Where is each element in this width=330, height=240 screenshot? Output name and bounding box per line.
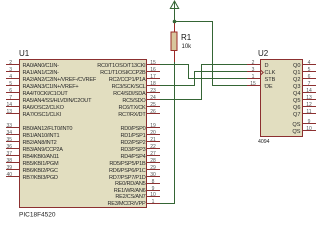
svg-text:RB4/KBI0/AN11: RB4/KBI0/AN11 [23, 154, 60, 160]
U1 pin 5 stub (left, RA3) [6, 81, 78, 90]
U1 pin 34 stub (left, RB1) [6, 130, 59, 139]
svg-text:37: 37 [6, 151, 12, 157]
svg-text:15: 15 [150, 60, 156, 66]
U1 pin 20 stub (right) [120, 130, 160, 139]
svg-text:RB2/AN8/INT2: RB2/AN8/INT2 [23, 140, 57, 146]
U1 pin 14 stub (left, RA6) [6, 102, 65, 111]
svg-text:33: 33 [6, 123, 12, 129]
U1 pin 21 stub (right) [120, 137, 160, 146]
svg-text:19: 19 [150, 123, 156, 129]
svg-text:RB3/AN9/CCP2A: RB3/AN9/CCP2A [23, 147, 64, 153]
svg-text:Q2: Q2 [293, 77, 300, 83]
svg-text:RB0/AN12/FLT0/INT0: RB0/AN12/FLT0/INT0 [23, 126, 73, 132]
svg-text:Q5: Q5 [293, 98, 300, 104]
svg-text:38: 38 [6, 158, 12, 164]
U1 pin 19 stub (right) [120, 123, 160, 132]
svg-text:RA1/AN1/C2IN-: RA1/AN1/C2IN- [23, 70, 60, 76]
svg-text:10: 10 [150, 192, 156, 198]
svg-text:2: 2 [252, 60, 255, 66]
svg-text:RC6/TX/CK: RC6/TX/CK [119, 105, 146, 111]
U2 pin 15 stub (left) [247, 81, 273, 90]
svg-text:14: 14 [306, 88, 312, 94]
svg-text:21: 21 [150, 137, 156, 143]
svg-text:RA7/OSC1/CLKI: RA7/OSC1/CLKI [23, 112, 62, 118]
svg-text:13: 13 [306, 95, 312, 101]
svg-text:RC0/T1OSO/T13CKI: RC0/T1OSO/T13CKI [97, 63, 146, 69]
wire R1 bottom to U1 RE3/MCLR pin 1 [160, 62, 175, 204]
svg-text:RA4/T0CKI/C1OUT: RA4/T0CKI/C1OUT [23, 91, 69, 97]
svg-text:26: 26 [150, 109, 156, 115]
U1 pin 39 stub (left, RB6) [6, 165, 58, 174]
U1 pin 26 stub (right) [118, 109, 160, 118]
svg-text:35: 35 [6, 137, 12, 143]
wire U1 RC5/SDO pin 24 to U2 D pin 2 [160, 65, 247, 100]
svg-text:OE: OE [265, 84, 273, 90]
U2 CLK clock chevron [261, 70, 264, 75]
svg-text:RD4/PSP4: RD4/PSP4 [120, 154, 145, 160]
svg-text:4: 4 [9, 74, 12, 80]
svg-text:PIC18F4520: PIC18F4520 [19, 212, 56, 219]
U1 pin 8 stub (right) [115, 179, 160, 187]
U1 pin 24 stub (right) [122, 95, 160, 104]
svg-text:5: 5 [9, 81, 12, 87]
shift register U2 body [261, 60, 303, 137]
svg-text:CLK: CLK [265, 70, 276, 76]
svg-text:RC2/CCP1/P1A: RC2/CCP1/P1A [109, 77, 146, 83]
svg-text:10k: 10k [182, 44, 193, 50]
svg-text:5: 5 [308, 67, 311, 73]
U2 pin 12 stub (right) [293, 102, 316, 111]
svg-text:Q1: Q1 [293, 70, 300, 76]
svg-text:RE2/CS/AN7: RE2/CS/AN7 [115, 194, 145, 200]
svg-text:11: 11 [306, 109, 311, 115]
svg-text:STB: STB [265, 77, 276, 83]
U1 pin 10 stub (right) [115, 192, 160, 200]
U1 pin 15 stub (right) [97, 60, 160, 69]
svg-text:16: 16 [150, 67, 156, 73]
U1 pin 17 stub (right) [109, 74, 160, 83]
U1 pin 25 stub (right) [119, 102, 160, 111]
svg-text:30: 30 [150, 172, 156, 178]
U1 pin 37 stub (left, RB4) [6, 151, 59, 160]
svg-text:34: 34 [6, 130, 12, 136]
svg-text:Q3: Q3 [293, 84, 300, 90]
svg-text:10: 10 [306, 126, 312, 132]
svg-text:25: 25 [150, 102, 156, 108]
U1 pin 38 stub (left, RB5) [6, 158, 59, 167]
U1 pin 6 stub (left, RA4) [6, 88, 68, 97]
U1 pin 29 stub (right) [109, 165, 160, 174]
svg-text:7: 7 [308, 81, 311, 87]
wire U1 RC3/SCK pin 18 to U2 CLK pin 3 [160, 72, 247, 86]
U1 pin 30 stub (right) [109, 172, 160, 181]
U2 pin 2 stub (left) [247, 60, 269, 69]
U1 pin 1 stub (right) [107, 199, 160, 207]
U1 pin 18 stub (right) [112, 81, 160, 90]
U1 pin 9 stub (right) [114, 186, 160, 194]
svg-text:6: 6 [308, 74, 311, 80]
svg-text:18: 18 [150, 81, 156, 87]
svg-text:U2: U2 [258, 49, 269, 58]
svg-text:Q0: Q0 [293, 63, 300, 69]
U2 pin 9 stub (right) [292, 119, 316, 128]
U2 pin 3 stub (left) [247, 67, 276, 76]
U2 pin 7 stub (right) [293, 81, 316, 90]
svg-text:RA2/AN2/C2IN+/VREF-/CVREF: RA2/AN2/C2IN+/VREF-/CVREF [23, 77, 97, 83]
svg-text:39: 39 [6, 165, 12, 171]
U2 pin 6 stub (right) [293, 74, 316, 83]
svg-text:RD5/PSP5/P1B: RD5/PSP5/P1B [109, 161, 146, 167]
svg-text:RC4/SDI/SDA: RC4/SDI/SDA [113, 91, 146, 97]
svg-text:RB6/KBI2/PGC: RB6/KBI2/PGC [23, 168, 58, 174]
svg-text:RD3/PSP3: RD3/PSP3 [120, 147, 145, 153]
U2 pin 10 stub (right) [292, 126, 316, 135]
svg-text:15: 15 [250, 81, 256, 87]
U1 pin 40 stub (left, RB7) [6, 172, 58, 181]
wire VCC junction to U2 OE pin 15 [175, 22, 248, 86]
svg-text:RD1/PSP1: RD1/PSP1 [120, 133, 145, 139]
U1 pin 23 stub (right) [113, 88, 160, 97]
U1 pin 2 stub (left, RA0) [6, 60, 59, 69]
svg-text:40: 40 [6, 172, 12, 178]
U1 pin 33 stub (left, RB0) [6, 123, 72, 132]
svg-text:RB5/KBI1/PGM: RB5/KBI1/PGM [23, 161, 59, 167]
wire U1 RC0 pin 15 to U2 STB pin 1 [160, 65, 247, 79]
svg-text:RB1/AN10/INT1: RB1/AN10/INT1 [23, 133, 60, 139]
svg-text:22: 22 [150, 144, 156, 150]
U2 pin 5 stub (right) [293, 67, 316, 76]
U1 pin 27 stub (right) [120, 151, 160, 160]
node junction VCC/R1 [173, 20, 177, 24]
svg-text:Q6: Q6 [293, 105, 300, 111]
svg-text:RC1/T1OSI/CCP2B: RC1/T1OSI/CCP2B [100, 70, 146, 76]
svg-text:3: 3 [252, 67, 255, 73]
svg-text:1: 1 [152, 199, 155, 205]
svg-text:4094: 4094 [258, 139, 270, 145]
U1 pin 4 stub (left, RA2) [6, 74, 97, 83]
svg-text:RE3/MCLR/VPP: RE3/MCLR/VPP [107, 201, 146, 207]
U2 pin 14 stub (right) [293, 88, 316, 97]
svg-text:RB7/KBI3/PGD: RB7/KBI3/PGD [23, 175, 58, 181]
svg-text:17: 17 [150, 74, 156, 80]
svg-text:RD0/PSP0: RD0/PSP0 [120, 126, 145, 132]
U2 pin 1 stub (left) [247, 74, 276, 83]
U1 pin 3 stub (left, RA1) [6, 67, 59, 76]
U1 pin 28 stub (right) [109, 158, 160, 167]
svg-text:23: 23 [150, 88, 156, 94]
svg-text:RA5/AN4/SS/HLVDIN/C2OUT: RA5/AN4/SS/HLVDIN/C2OUT [23, 98, 93, 104]
U2 pin 13 stub (right) [293, 95, 316, 104]
svg-text:QS: QS [292, 122, 300, 128]
svg-text:20: 20 [150, 130, 156, 136]
svg-text:24: 24 [150, 95, 156, 101]
svg-text:4: 4 [308, 60, 311, 66]
svg-text:RD2/PSP2: RD2/PSP2 [120, 140, 145, 146]
svg-text:14: 14 [6, 102, 12, 108]
U1 pin 13 stub (left, RA7) [6, 109, 62, 118]
svg-text:8: 8 [152, 179, 155, 185]
svg-text:RA3/AN3/C1IN+/VREF+: RA3/AN3/C1IN+/VREF+ [23, 84, 79, 90]
svg-text:13: 13 [6, 109, 12, 115]
U2 pin 11 stub (right) [293, 109, 316, 118]
svg-text:12: 12 [306, 102, 312, 108]
svg-text:7: 7 [9, 95, 12, 101]
U1 pin 7 stub (left, RA5) [6, 95, 92, 104]
svg-text:3: 3 [9, 67, 12, 73]
svg-text:Q7: Q7 [293, 112, 300, 118]
U1 pin 22 stub (right) [120, 144, 160, 153]
svg-text:6: 6 [9, 88, 12, 94]
U1 pin 16 stub (right) [100, 67, 160, 76]
svg-text:RA6/OSC2/CLKO: RA6/OSC2/CLKO [23, 105, 65, 111]
svg-text:36: 36 [6, 144, 12, 150]
svg-text:RC7/RX/DT: RC7/RX/DT [118, 112, 146, 118]
svg-text:QS: QS [292, 129, 300, 135]
svg-text:RD6/PSP6/P1C: RD6/PSP6/P1C [109, 168, 146, 174]
svg-text:9: 9 [308, 119, 311, 125]
svg-text:Q4: Q4 [293, 91, 300, 97]
resistor R1 [171, 22, 177, 63]
svg-text:RC3/SCK/SCL: RC3/SCK/SCL [112, 84, 146, 90]
svg-text:27: 27 [150, 151, 156, 157]
svg-text:D: D [265, 63, 269, 69]
svg-text:1: 1 [252, 74, 255, 80]
svg-text:2: 2 [9, 60, 12, 66]
U1 pin 36 stub (left, RB3) [6, 144, 63, 153]
U1 pin 35 stub (left, RB2) [6, 137, 57, 146]
U2 pin 4 stub (right) [293, 60, 316, 69]
svg-text:RE0/RD/AN5: RE0/RD/AN5 [115, 181, 146, 187]
power symbol VCC [170, 1, 178, 22]
svg-text:RA0/AN0/C1IN-: RA0/AN0/C1IN- [23, 63, 60, 69]
svg-text:U1: U1 [19, 49, 30, 58]
svg-text:28: 28 [150, 158, 156, 164]
svg-text:29: 29 [150, 165, 156, 171]
svg-text:R1: R1 [181, 33, 192, 42]
svg-text:RC5/SDO: RC5/SDO [122, 98, 146, 104]
microcontroller U1 body [20, 60, 147, 208]
